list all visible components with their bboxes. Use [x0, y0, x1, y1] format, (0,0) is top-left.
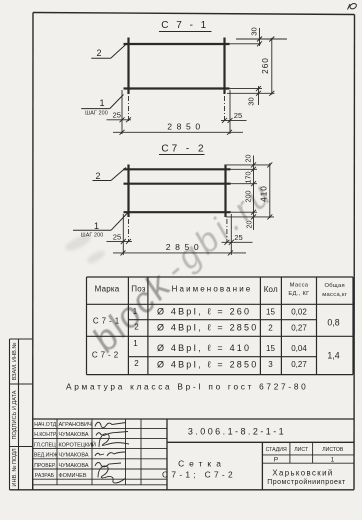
svg-text:1,4: 1,4 — [327, 351, 339, 361]
mesh C7-2 longitudinal wire bottom (pos 2) — [124, 211, 231, 213]
svg-text:ВЗАМ. ИНВ.№: ВЗАМ. ИНВ.№ — [12, 343, 18, 381]
name cell Сетка — [162, 459, 236, 480]
svg-text:3.006.1-8.2-1-1: 3.006.1-8.2-1-1 — [188, 427, 286, 437]
table total mass column — [327, 318, 339, 361]
page number 10 — [348, 2, 358, 9]
dim 25 right C7-1 — [221, 90, 247, 134]
signature role names — [34, 422, 58, 479]
svg-text:0,8: 0,8 — [327, 318, 339, 328]
svg-text:ГЛ.СПЕЦ: ГЛ.СПЕЦ — [34, 442, 56, 448]
svg-text:С7-2: С7-2 — [92, 351, 121, 360]
label pos 1 шаг 200 leader C7-1 — [81, 95, 123, 117]
svg-text:Поз: Поз — [131, 285, 146, 294]
svg-text:1: 1 — [133, 339, 138, 348]
svg-text:15: 15 — [266, 308, 275, 317]
dim 20 top C7-2 — [226, 156, 271, 231]
watermark — [84, 173, 282, 359]
organization name — [267, 468, 346, 486]
svg-text:25: 25 — [113, 232, 121, 241]
svg-text:25: 25 — [234, 233, 242, 242]
mesh C7-1 longitudinal wire bottom (pos 2) — [124, 87, 230, 89]
title C7-1 — [159, 20, 212, 32]
table qty column — [266, 308, 275, 370]
table header texts — [95, 285, 278, 295]
dim 25 left C7-1 — [107, 90, 132, 134]
svg-text:1: 1 — [331, 457, 335, 464]
svg-text:2850: 2850 — [166, 242, 204, 252]
title block outline — [33, 419, 354, 490]
mesh C7-2 longitudinal wire middle (pos 2) — [124, 183, 231, 185]
document number — [188, 427, 286, 437]
svg-text:2850: 2850 — [167, 122, 205, 132]
svg-text:Общая: Общая — [324, 283, 344, 289]
dim 200 C7-2 — [231, 210, 258, 215]
svg-text:2: 2 — [134, 359, 139, 368]
svg-text:РАЗРАБ: РАЗРАБ — [35, 473, 55, 479]
svg-text:ВЕД.ИНЖ: ВЕД.ИНЖ — [34, 453, 58, 459]
left margin strip cells — [10, 339, 33, 490]
note armatura — [66, 382, 308, 392]
svg-text:Арматура класса Вр-I по г: Арматура класса Вр-I по гост 6727-80 — [66, 382, 308, 392]
svg-text:0,02: 0,02 — [291, 308, 307, 317]
mesh C7-2 right cross wire (pos 1) — [224, 165, 226, 218]
svg-text:1: 1 — [94, 221, 99, 231]
svg-text:ЛИСТОВ: ЛИСТОВ — [322, 447, 344, 453]
svg-text:АГРАНОВИЧ: АГРАНОВИЧ — [59, 422, 92, 428]
table poz column — [133, 307, 140, 368]
svg-text:2: 2 — [95, 171, 100, 181]
svg-text:Ø 4ВрI, ℓ = 2850: Ø 4ВрI, ℓ = 2850 — [157, 323, 258, 333]
svg-text:ЧУМАКОВА: ЧУМАКОВА — [59, 463, 89, 469]
svg-text:170: 170 — [244, 172, 253, 184]
signature squiggles — [95, 422, 129, 483]
svg-text:Харьковский: Харьковский — [272, 468, 333, 477]
svg-text:Наименование: Наименование — [172, 285, 253, 294]
table unit mass column — [291, 308, 307, 370]
dim 170 C7-2 — [231, 181, 258, 186]
svg-text:Р: Р — [274, 457, 279, 464]
svg-text:2: 2 — [134, 323, 139, 332]
svg-text:410: 410 — [260, 185, 269, 202]
dim 2850 C7-2 — [113, 250, 246, 255]
svg-text:Ø 4ВрI, ℓ = 2850: Ø 4ВрI, ℓ = 2850 — [157, 360, 258, 370]
svg-text:1: 1 — [133, 307, 138, 316]
svg-text:260: 260 — [261, 57, 270, 74]
svg-text:25: 25 — [112, 110, 120, 119]
svg-text:0,27: 0,27 — [291, 324, 307, 333]
dim 410 C7-2 — [267, 162, 272, 219]
dim 20 bottom C7-2 — [226, 214, 274, 219]
table marka column — [92, 317, 122, 360]
svg-text:3: 3 — [268, 360, 273, 369]
dim 2850 C7-1 — [113, 130, 243, 135]
svg-text:масса,кг: масса,кг — [322, 292, 347, 298]
left strip rotated labels — [12, 343, 18, 487]
svg-text:1: 1 — [99, 98, 104, 108]
svg-text:С 7 - 1: С 7 - 1 — [161, 20, 209, 31]
mesh C7-1 right cross wire (pos 1) — [223, 38, 225, 95]
svg-text:ЛИСТ: ЛИСТ — [294, 447, 309, 453]
svg-text:Кол: Кол — [264, 285, 278, 294]
svg-text:Ø 4ВрI, ℓ = 410: Ø 4ВрI, ℓ = 410 — [157, 343, 251, 353]
svg-text:ПОДПИСЬ И ДАТА: ПОДПИСЬ И ДАТА — [12, 390, 18, 439]
pencil smudge — [63, 233, 106, 266]
svg-text:15: 15 — [266, 344, 275, 353]
svg-text:ЕД., КГ: ЕД., КГ — [288, 291, 310, 297]
label pos 2 leader C7-2 — [93, 168, 127, 182]
svg-text:20: 20 — [244, 155, 253, 163]
svg-text:Промстройниипроект: Промстройниипроект — [267, 478, 346, 486]
svg-text:С7-1; С7-2: С7-1; С7-2 — [162, 469, 236, 479]
dim 25 left C7-2 — [107, 214, 133, 255]
svg-text:ПРОВЕР.: ПРОВЕР. — [34, 463, 56, 469]
svg-text:0,04: 0,04 — [291, 344, 307, 353]
svg-text:НАЧ.ОТД: НАЧ.ОТД — [34, 422, 56, 428]
svg-text:С7 - 2: С7 - 2 — [161, 144, 206, 155]
svg-text:ИНВ. № ПОДЛ: ИНВ. № ПОДЛ — [12, 448, 18, 486]
svg-text:2: 2 — [96, 48, 101, 58]
svg-text:ФОМИЧЕВ: ФОМИЧЕВ — [59, 473, 87, 479]
svg-text:ЧУМАКОВА: ЧУМАКОВА — [59, 432, 89, 438]
label pos 2 leader C7-1 — [91, 45, 125, 59]
mesh C7-1 longitudinal wire top (pos 2) — [124, 43, 230, 45]
table grid — [87, 277, 354, 375]
svg-text:2: 2 — [268, 324, 273, 333]
svg-text:200: 200 — [244, 191, 253, 203]
mesh C7-2 left cross wire (pos 1) — [127, 165, 129, 218]
svg-text:Н.КОНТР.: Н.КОНТР. — [34, 432, 57, 438]
dim 260 C7-1 — [269, 37, 274, 96]
mesh C7-1 left cross wire (pos 1) — [127, 38, 129, 95]
svg-text:25: 25 — [234, 111, 242, 120]
svg-text:30: 30 — [247, 97, 256, 105]
dim 25 right C7-2 — [222, 214, 253, 255]
svg-text:20: 20 — [245, 221, 254, 229]
svg-text:30: 30 — [250, 27, 259, 35]
title C7-2 — [159, 144, 207, 155]
mesh C7-2 longitudinal wire top (pos 2) — [124, 168, 231, 170]
svg-text:ЧУМАКОВА: ЧУМАКОВА — [59, 453, 89, 459]
dim 30 bottom C7-1 — [227, 86, 275, 105]
svg-text:Ø 4ВрI, ℓ = 260: Ø 4ВрI, ℓ = 260 — [157, 307, 251, 317]
svg-text:Марка: Марка — [95, 285, 120, 294]
svg-text:Сетка: Сетка — [178, 459, 226, 469]
label pos 1 шаг 200 leader C7-2 — [73, 213, 128, 238]
table name column — [157, 307, 258, 370]
svg-text:0,27: 0,27 — [291, 360, 307, 369]
signature person names — [59, 422, 96, 479]
svg-text:Масса: Масса — [290, 283, 309, 289]
svg-text:СТАДИЯ: СТАДИЯ — [266, 447, 287, 453]
stadiya table — [262, 442, 354, 463]
svg-text:ШАГ 200: ШАГ 200 — [85, 111, 108, 117]
svg-text:КОРОТЕЦКИЙ: КОРОТЕЦКИЙ — [59, 440, 96, 448]
signature table grid — [33, 419, 167, 485]
svg-text:С7-1: С7-1 — [93, 317, 122, 326]
dim 30 top C7-1 — [230, 28, 288, 46]
